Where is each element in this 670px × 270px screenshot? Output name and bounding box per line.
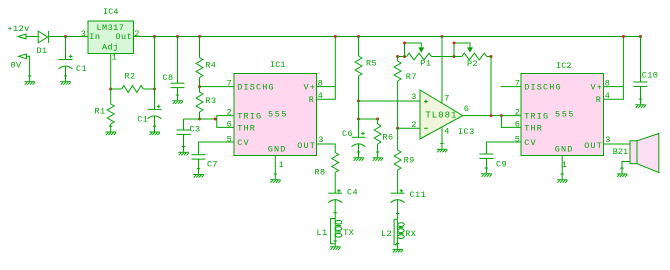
ground for C10	[635, 99, 646, 108]
ground for R1	[106, 126, 117, 135]
node on bracket wire	[214, 118, 217, 121]
IC2 pin name V+	[591, 83, 604, 93]
IC2 text 555	[555, 110, 575, 120]
P2 wiper bracket	[454, 43, 470, 57]
IC4 pin name In	[89, 32, 100, 42]
svg-text:THR: THR	[524, 123, 543, 133]
svg-text:CV: CV	[237, 138, 250, 148]
label +12v	[8, 24, 30, 34]
svg-text:R2: R2	[125, 71, 136, 81]
svg-text:IC2: IC2	[556, 61, 572, 71]
svg-text:Adj: Adj	[102, 43, 119, 53]
svg-text:DISCHG: DISCHG	[237, 83, 275, 93]
label L2	[381, 229, 392, 239]
wire IC3 output pin 6 to IC2 TRIG	[463, 115, 521, 117]
svg-text:L2: L2	[381, 229, 392, 239]
IC2 pin name TRIG	[524, 112, 549, 122]
wire IC1 OUT pin 3 to R8	[317, 144, 336, 153]
IC1 pin number 2	[227, 107, 233, 117]
wire P1 left lead	[398, 56, 407, 58]
ground for C7	[193, 169, 204, 178]
svg-text:GND: GND	[555, 145, 574, 155]
resistor R2	[111, 86, 155, 93]
label B21	[613, 147, 628, 157]
label P2	[467, 59, 478, 69]
svg-text:B21: B21	[613, 147, 628, 157]
svg-text:IC3: IC3	[458, 127, 475, 137]
node C (R2 right / C1b)	[153, 88, 156, 91]
wire C6 to ground	[358, 144, 360, 158]
label RX	[405, 229, 416, 239]
wire IC1 GND pin 1 down	[274, 156, 276, 180]
label TX	[343, 228, 354, 238]
op IC2 555 timer body	[521, 74, 604, 156]
node H (P1 left terminal)	[396, 55, 399, 58]
node P2 bracket corner	[453, 42, 456, 45]
label IC1	[270, 60, 286, 70]
IC3 pin number 7	[444, 93, 450, 103]
capacitor C3	[177, 130, 191, 134]
IC2 pin number 1	[562, 160, 568, 170]
wire IC2 GND pin 1 down	[561, 156, 563, 180]
IC2 pin number 2	[515, 107, 521, 117]
IC1 pin name DISCHG	[237, 83, 275, 93]
ground for C1	[60, 76, 71, 85]
label C9	[496, 159, 507, 169]
IC1 pin name GND	[268, 145, 287, 155]
ground for R6	[372, 152, 383, 161]
wire IC4 Adj pin 1 down	[110, 54, 112, 90]
wire node E to TRIG-THR bracket	[184, 118, 217, 120]
node rail-C1b	[153, 35, 156, 38]
node I (P2 left terminal)	[453, 55, 456, 58]
svg-text:R9: R9	[404, 155, 415, 165]
IC1 pin number 1	[279, 160, 285, 170]
wire IC2 DISCHG stub pin 7	[501, 86, 522, 88]
label C11	[410, 190, 427, 200]
label R4	[205, 61, 216, 71]
resistor R1	[107, 89, 114, 132]
IC1 pin number 3	[318, 135, 324, 145]
IC2 pin number 5	[515, 134, 521, 144]
label P1	[420, 59, 431, 69]
wire C1b to ground	[154, 116, 156, 132]
node D (R4/R3/DISCHG junction)	[198, 85, 201, 88]
wire C9 to ground	[485, 158, 487, 173]
svg-text:R: R	[309, 95, 315, 105]
svg-text:C8: C8	[163, 73, 174, 83]
IC3 pin number 4	[444, 126, 450, 136]
capacitor C7	[192, 155, 206, 159]
svg-text:C4: C4	[347, 188, 358, 198]
ground for C1b	[149, 126, 160, 135]
wire C1 to ground	[65, 66, 67, 82]
node G (C6/R6 junction)	[357, 118, 360, 121]
IC4 text LM317	[97, 23, 125, 33]
wire rail down to C10	[640, 37, 642, 83]
IC2 pin number 3	[605, 135, 611, 145]
ground for L2/RX	[392, 244, 403, 253]
ground for IC1	[270, 174, 281, 183]
resistor R7	[394, 61, 401, 128]
wire node F to IC3 pin 3	[359, 100, 421, 102]
wire +12v to D1 anode	[26, 36, 38, 38]
wire IC4 Out pin 2 to +V rail	[134, 36, 155, 38]
wire node D to IC1 DISCHG pin 7	[200, 86, 235, 88]
P2 wiper arrow	[467, 47, 473, 52]
svg-text:P2: P2	[467, 59, 478, 69]
IC2 pin name R	[596, 95, 602, 105]
ground for C3	[178, 147, 189, 156]
wire P2 left lead	[454, 56, 462, 58]
wire P1 right to P2 left	[432, 56, 455, 58]
wire bracket TRIG-THR of IC1	[217, 116, 234, 128]
node rail-C8	[176, 35, 179, 38]
wire C3 to ground	[183, 134, 185, 151]
svg-text:2: 2	[411, 120, 417, 130]
wire node K to IC3 pin 2	[398, 127, 420, 129]
node rail-R4	[198, 35, 201, 38]
svg-text:+12v: +12v	[8, 24, 30, 34]
svg-text:V+: V+	[304, 83, 317, 93]
wire L1 to ground	[334, 244, 336, 247]
IC1 pin number 7	[227, 78, 233, 88]
wire C4 to L1/TX	[334, 199, 337, 218]
capacitor C10	[634, 82, 648, 86]
svg-text:7: 7	[444, 93, 450, 103]
svg-text:2: 2	[515, 107, 521, 117]
IC3 pin number 2	[411, 120, 417, 130]
svg-text:CV: CV	[524, 138, 537, 148]
IC2 pin number 6	[515, 119, 521, 129]
IC3 pin number 6	[464, 104, 470, 114]
svg-text:C11: C11	[410, 190, 427, 200]
svg-text:R6: R6	[382, 133, 393, 143]
svg-text:1: 1	[279, 160, 285, 170]
inductor L2 with winding RX parallel	[394, 219, 404, 244]
wire 0V to ground	[27, 56, 30, 81]
op IC1 555 timer body	[234, 74, 317, 156]
svg-text:TRIG: TRIG	[524, 112, 549, 122]
svg-text:4: 4	[444, 126, 450, 136]
wire rail down to IC3 pin 7	[441, 37, 443, 103]
wire node G to R6	[359, 118, 378, 120]
svg-text:IC1: IC1	[270, 60, 286, 70]
wire C7 to ground	[198, 159, 200, 174]
IC3 text TL081	[425, 110, 457, 120]
wire rail down to C8	[177, 37, 179, 84]
label IC4	[103, 7, 119, 17]
capacitor C1 (second, Adj bypass)	[148, 105, 162, 119]
svg-text:GND: GND	[268, 145, 287, 155]
svg-text:THR: THR	[237, 123, 256, 133]
wire node A down to C1	[65, 37, 67, 60]
label IC2	[556, 61, 572, 71]
label C1	[76, 64, 87, 74]
svg-text:3: 3	[411, 92, 417, 102]
ground for C8	[172, 95, 183, 104]
label R1	[95, 106, 106, 116]
diode D1	[38, 31, 48, 43]
label C8	[163, 73, 174, 83]
speaker B21	[630, 134, 659, 173]
IC4 pin name Out	[116, 32, 133, 42]
svg-text:6: 6	[515, 119, 521, 129]
wire P2 right down to IC3 output	[490, 57, 492, 116]
svg-text:OUT: OUT	[297, 141, 316, 151]
IC1 pin number 8	[318, 78, 324, 88]
svg-text:Out: Out	[116, 32, 133, 42]
svg-text:R1: R1	[95, 106, 106, 116]
IC4 pin name Adj	[102, 43, 119, 53]
label C4	[347, 188, 358, 198]
IC4 pin number 2	[134, 29, 140, 39]
capacitor C11	[391, 189, 405, 203]
svg-text:OUT: OUT	[584, 141, 603, 151]
IC2 pin name GND	[555, 145, 574, 155]
svg-text:R8: R8	[315, 168, 326, 178]
IC2 pin name OUT	[584, 141, 603, 151]
svg-text:L1: L1	[317, 228, 328, 238]
resistor R6	[374, 119, 381, 157]
IC1 pin name V+	[304, 83, 317, 93]
svg-text:2: 2	[227, 107, 233, 117]
wire IC2 R pin 4 to V+ line	[604, 87, 624, 100]
svg-text:C9: C9	[496, 159, 507, 169]
IC1 pin name OUT	[297, 141, 316, 151]
resistor R5	[355, 37, 362, 102]
svg-text:C1: C1	[76, 64, 87, 74]
P1 wiper bracket	[405, 43, 422, 57]
label R7	[406, 72, 417, 82]
capacitor C1 (input electrolytic)	[59, 55, 73, 69]
ground for C6	[353, 152, 364, 161]
node rail-C10	[639, 35, 642, 38]
capacitor C6	[352, 132, 366, 147]
svg-text:3: 3	[81, 29, 87, 39]
svg-text:7: 7	[227, 78, 233, 88]
IC1 pin name THR	[237, 123, 256, 133]
wire C8 to ground	[177, 88, 179, 101]
svg-text:R4: R4	[205, 61, 216, 71]
svg-text:555: 555	[268, 110, 288, 120]
svg-text:RX: RX	[405, 229, 416, 239]
label R5	[366, 59, 377, 69]
node F (op-amp + input)	[357, 100, 360, 103]
wire P2 right lead	[487, 56, 491, 58]
wire IC3 pin 4 to ground	[441, 128, 443, 149]
node rail-IC2V+	[622, 35, 625, 38]
wire bracket TRIG-THR of IC2	[501, 116, 521, 128]
IC1 text 555	[268, 110, 288, 120]
label D1	[37, 46, 48, 56]
node rail-IC1V+	[334, 35, 337, 38]
label L1	[317, 228, 328, 238]
label C10	[642, 70, 659, 80]
svg-text:TX: TX	[343, 228, 354, 238]
IC1 pin name R	[309, 95, 315, 105]
node B (Adj node)	[109, 88, 112, 91]
wire IC1 R pin 4 to V+ line	[317, 87, 336, 100]
svg-text:2: 2	[134, 29, 140, 39]
svg-text:IC4: IC4	[103, 7, 119, 17]
wire C11 to L2/RX	[396, 199, 399, 219]
svg-text:6: 6	[464, 104, 470, 114]
ground for IC2	[557, 174, 568, 183]
label R3	[206, 96, 217, 106]
IC3 pin number 3	[411, 92, 417, 102]
svg-text:6: 6	[227, 119, 233, 129]
svg-text:V+: V+	[591, 83, 604, 93]
label R9	[404, 155, 415, 165]
label IC3	[458, 127, 475, 137]
svg-text:R7: R7	[406, 72, 417, 82]
svg-text:DISCHG: DISCHG	[524, 83, 562, 93]
potentiometer P1 body	[407, 53, 432, 60]
svg-text:0V: 0V	[11, 61, 23, 71]
svg-text:R: R	[596, 95, 602, 105]
IC2 pin number 4	[605, 91, 611, 101]
IC2 pin name THR	[524, 123, 543, 133]
node R6 top	[376, 118, 379, 121]
op IC4 LM317 body	[88, 21, 134, 54]
wire IC1 V+ pin 8 to rail	[317, 37, 336, 87]
node M (TRIG bracket)	[500, 114, 503, 117]
IC2 pin name DISCHG	[524, 83, 562, 93]
label C7	[207, 159, 218, 169]
label C6	[342, 129, 353, 139]
resistor R8	[332, 153, 339, 194]
IC3 minus input mark	[424, 127, 428, 129]
label R8	[315, 168, 326, 178]
wire C10 to ground	[640, 86, 642, 104]
svg-text:C6: C6	[342, 129, 353, 139]
svg-text:C7: C7	[207, 159, 218, 169]
label C3	[190, 124, 201, 134]
svg-text:555: 555	[555, 110, 575, 120]
P1 wiper arrow	[418, 47, 424, 52]
wire rail down to C1b	[154, 37, 156, 110]
wire P1 left to R7 top	[397, 57, 399, 62]
ground for 0V terminal	[24, 76, 35, 85]
IC1 pin number 6	[227, 119, 233, 129]
label C1 (second)	[137, 115, 148, 125]
terminal +12V supply arrow	[18, 34, 26, 39]
wire IC1 CV pin 5 to C7	[199, 142, 235, 155]
node E (R3 bottom / C3)	[198, 118, 201, 121]
label 0V	[11, 61, 23, 71]
wire L2 to ground	[397, 245, 399, 249]
terminal 0V arrow	[19, 54, 27, 59]
op-amp IC3 TL081	[420, 90, 463, 139]
node P1 wiper tie	[403, 55, 406, 58]
svg-text:TL081: TL081	[425, 110, 457, 120]
svg-text:C1: C1	[137, 115, 148, 125]
wire +V rail	[155, 36, 641, 38]
node P1 bracket corner	[403, 42, 406, 45]
IC2 pin number 7	[515, 78, 521, 88]
node rail-IC3V+	[441, 35, 444, 38]
svg-text:TRIG: TRIG	[237, 112, 262, 122]
IC1 pin name TRIG	[237, 112, 262, 122]
resistor R3	[196, 87, 203, 119]
IC4 pin number 1	[112, 53, 118, 63]
wire C3 top lead	[183, 119, 185, 130]
wire IC2 V+ pin 8 to rail	[604, 37, 624, 87]
svg-text:5: 5	[227, 134, 233, 144]
wire IC2 OUT pin 3 to B21	[604, 143, 631, 145]
capacitor C4	[328, 189, 342, 203]
wire node F down to node G	[358, 101, 360, 119]
IC2 pin number 8	[605, 78, 611, 88]
node J (P2 right terminal)	[490, 55, 493, 58]
label R6	[382, 133, 393, 143]
node K (op-amp - input)	[396, 127, 399, 130]
svg-text:5: 5	[515, 134, 521, 144]
wire C6 top lead	[358, 119, 360, 137]
wire D1 cathode to IC4 In pin 3	[49, 36, 88, 38]
svg-text:R5: R5	[366, 59, 377, 69]
inductor L1 with winding TX parallel	[331, 219, 342, 244]
capacitor C8	[171, 83, 185, 87]
IC1 pin name CV	[237, 138, 250, 148]
label R2	[125, 71, 136, 81]
IC3 plus input mark	[424, 100, 428, 104]
node rail-R5	[357, 35, 360, 38]
svg-text:D1: D1	[37, 46, 48, 56]
wire IC2 CV pin 5 to C9	[486, 142, 521, 154]
svg-text:In: In	[89, 32, 100, 42]
resistor R4	[196, 37, 203, 87]
ground for C9	[481, 168, 492, 177]
svg-text:R3: R3	[206, 96, 217, 106]
node A (+12V input node)	[64, 35, 67, 38]
node L (IC3 output)	[490, 114, 493, 117]
svg-text:1: 1	[112, 53, 118, 63]
ground for L1/TX	[330, 241, 341, 250]
resistor R9	[394, 128, 401, 193]
IC2 pin name CV	[524, 138, 537, 148]
IC1 pin number 5	[227, 134, 233, 144]
wire B21 return to ground	[622, 162, 630, 174]
IC1 pin number 4	[318, 91, 324, 101]
svg-text:P1: P1	[420, 59, 431, 69]
capacitor C9	[479, 154, 493, 158]
ground for IC3	[437, 144, 448, 153]
ground for B21	[617, 168, 628, 177]
IC4 pin number 3	[81, 29, 87, 39]
svg-text:C3: C3	[190, 124, 201, 134]
svg-text:C10: C10	[642, 70, 659, 80]
potentiometer P2 body	[462, 53, 487, 60]
